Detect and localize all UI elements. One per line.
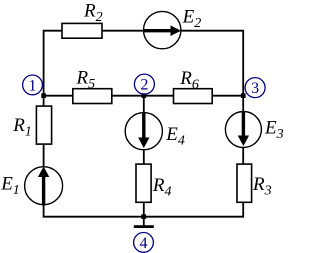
ground stub (143, 217, 145, 226)
resistor R2 (62, 23, 102, 38)
svg-text:E2: E2 (182, 7, 202, 32)
svg-text:3: 3 (251, 80, 259, 97)
svg-text:E1: E1 (0, 174, 20, 199)
junction at node2 (142, 93, 147, 98)
svg-text:E4: E4 (165, 124, 185, 149)
ground bar (134, 225, 154, 228)
svg-text:1: 1 (29, 77, 37, 94)
resistor R4 (136, 164, 151, 202)
resistor R3 (237, 164, 252, 202)
svg-text:2: 2 (140, 77, 148, 94)
resistor R5 (73, 89, 112, 104)
svg-text:R1: R1 (12, 115, 32, 140)
wire: top loop from node1 up, across top to right column (44, 31, 244, 96)
junction at node3 (241, 93, 246, 98)
node 2 (134, 74, 154, 94)
source E3 (225, 112, 261, 148)
wire: left branch down through R1,E1 to bottom (44, 96, 244, 217)
svg-text:R2: R2 (83, 1, 103, 26)
wire: middle horizontal from node1 to node3 (44, 95, 244, 97)
source E1 (25, 167, 63, 206)
svg-text:R6: R6 (179, 68, 199, 93)
junction at node1 (41, 93, 46, 98)
svg-text:4: 4 (140, 235, 148, 252)
svg-text:E3: E3 (264, 118, 284, 143)
svg-text:R4: R4 (152, 175, 172, 200)
source E2 (144, 11, 182, 48)
wire: middle branch node2 down to bottom (143, 96, 145, 217)
svg-text:R3: R3 (252, 174, 272, 199)
source E4 (125, 113, 162, 150)
resistor R1 (36, 106, 51, 144)
node 4 (134, 233, 154, 253)
resistor R6 (174, 89, 213, 104)
svg-text:R5: R5 (76, 68, 96, 93)
node 3 (245, 78, 265, 98)
node 1 (23, 75, 43, 95)
junction at bottom node4 (141, 214, 146, 219)
